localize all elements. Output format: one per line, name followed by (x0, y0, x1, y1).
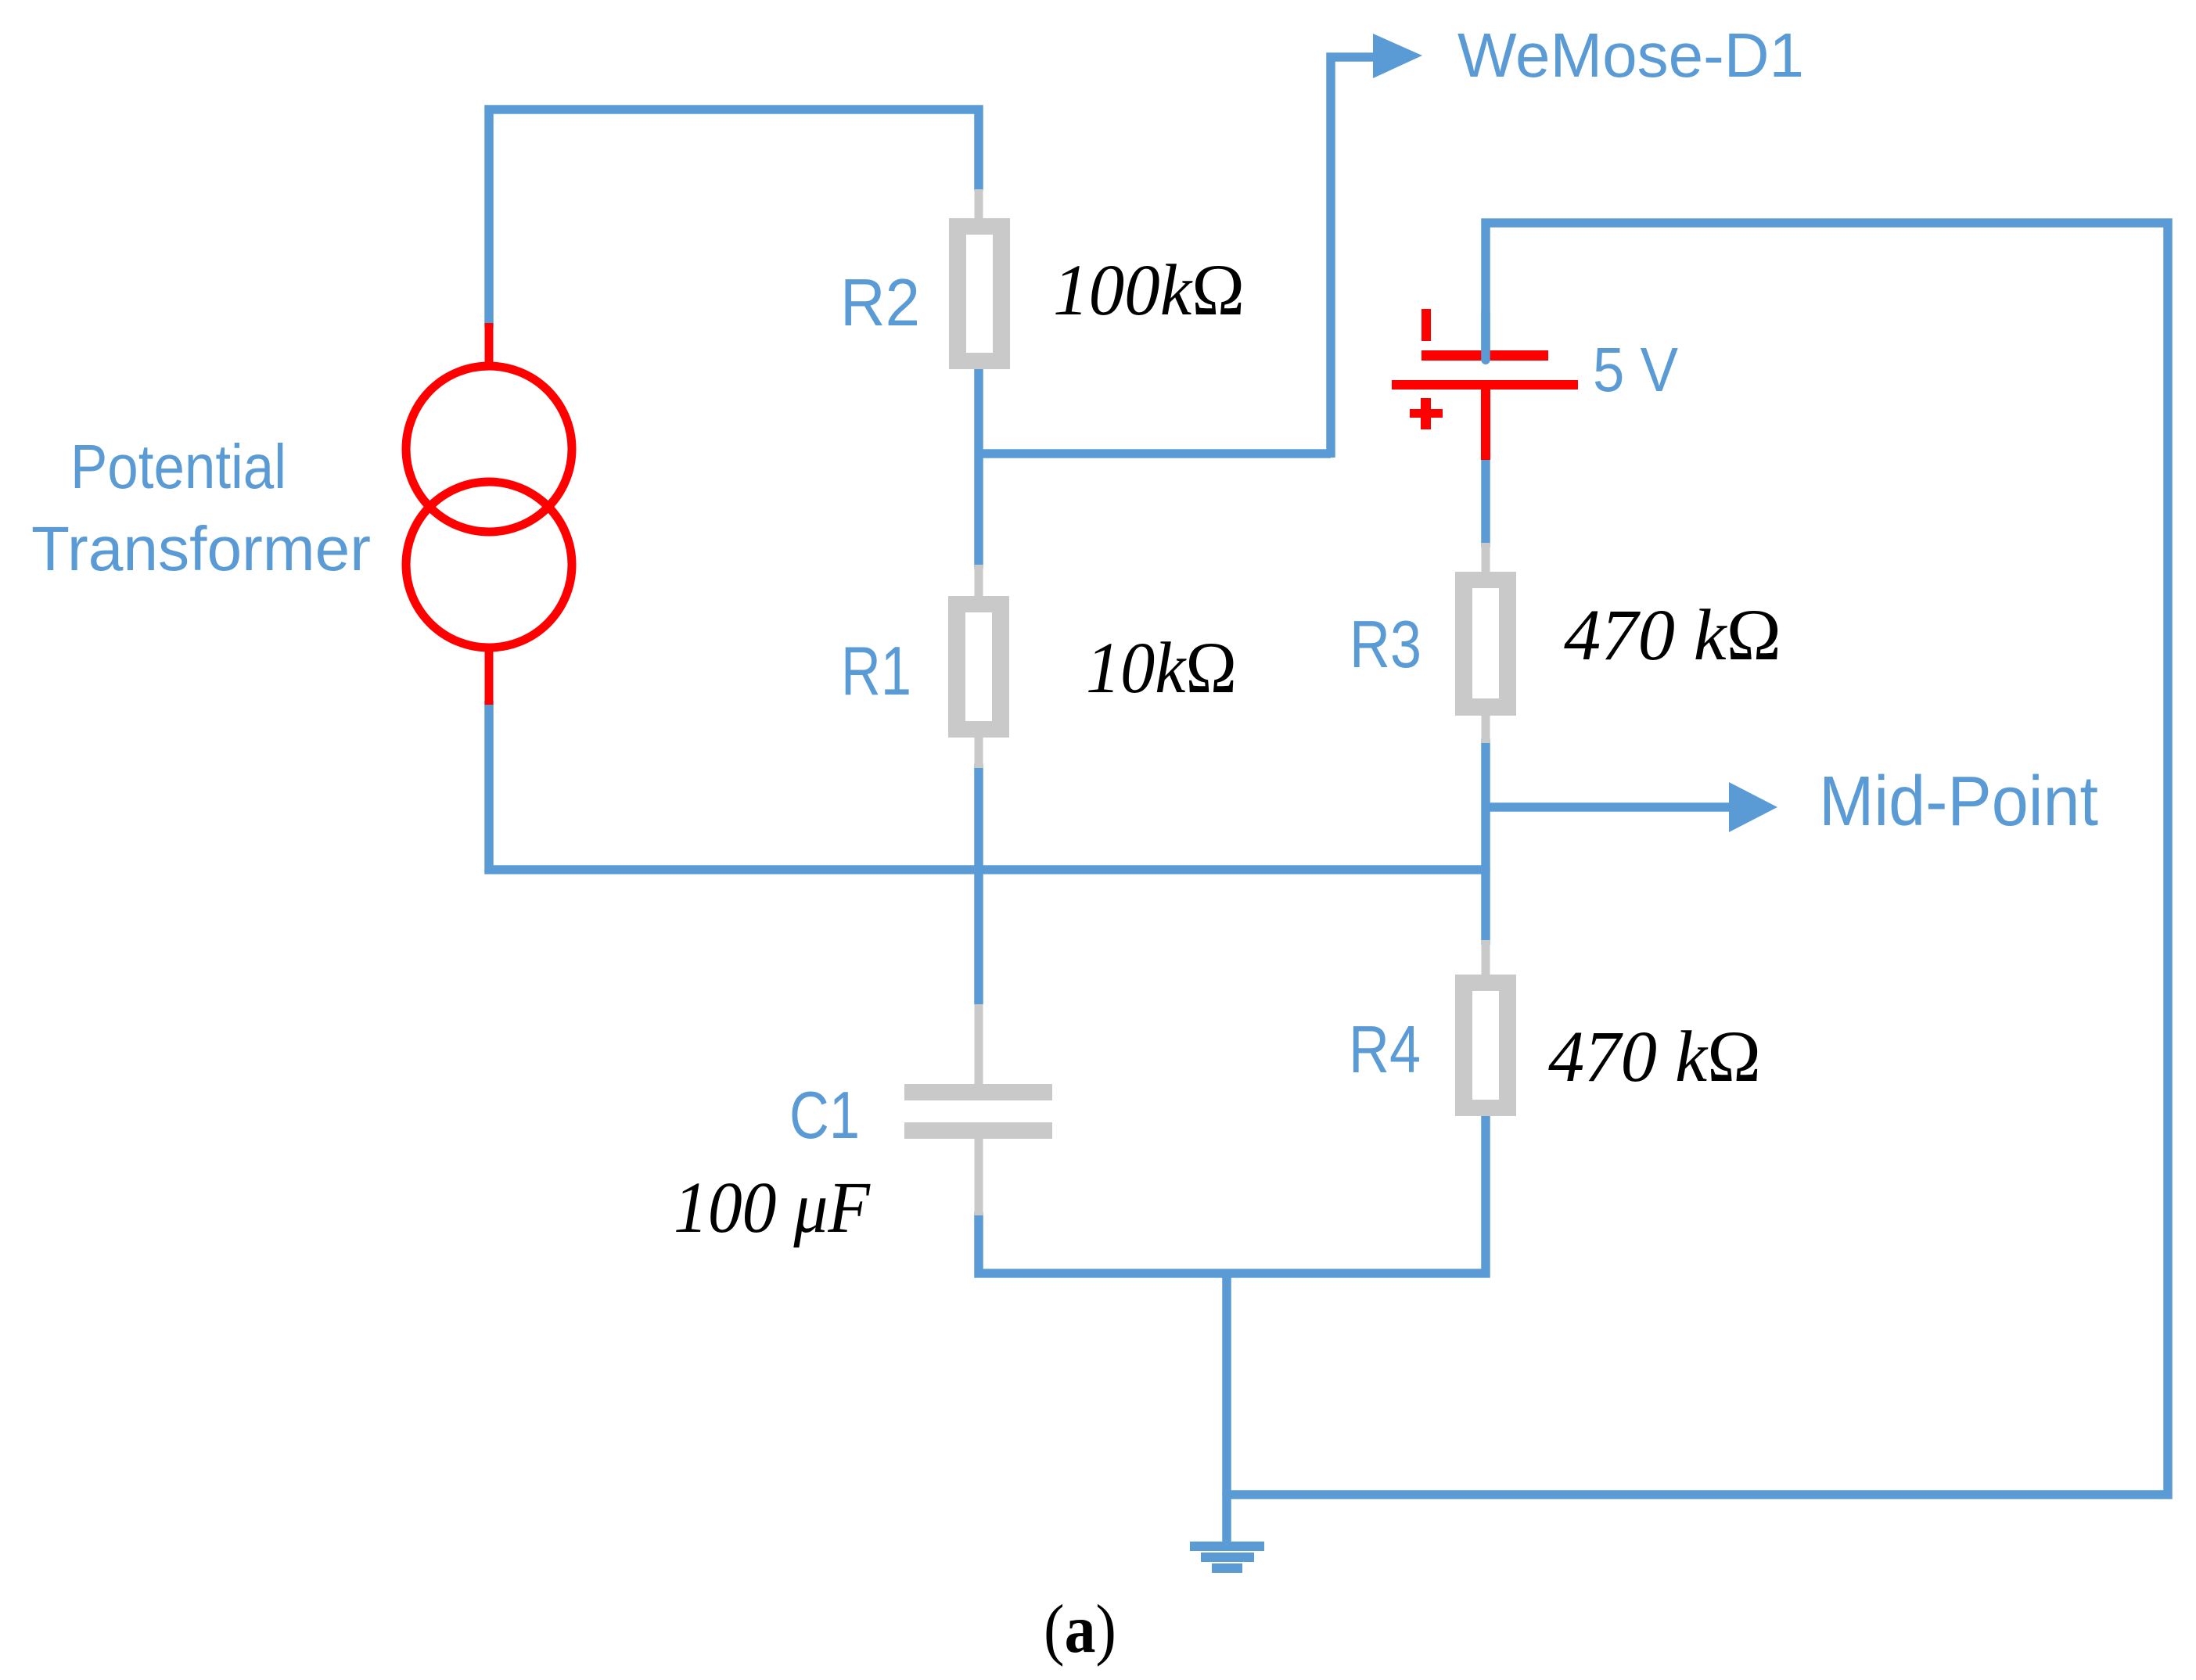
svg-text:WeMose-D1: WeMose-D1 (1457, 20, 1804, 90)
svg-text:5 V: 5 V (1593, 335, 1679, 404)
svg-text:R4: R4 (1349, 1013, 1421, 1087)
svg-text:100kΩ: 100kΩ (1053, 250, 1245, 331)
svg-text:10kΩ: 10kΩ (1086, 628, 1237, 709)
svg-text:100 μF: 100 μF (674, 1168, 871, 1248)
svg-text:Mid-Point: Mid-Point (1819, 763, 2098, 841)
svg-text:Potential: Potential (70, 432, 286, 501)
svg-text:(a): (a) (1044, 1592, 1116, 1667)
svg-text:R1: R1 (841, 632, 911, 709)
svg-text:Transformer: Transformer (31, 514, 371, 583)
svg-text:C1: C1 (789, 1079, 860, 1153)
svg-text:470 kΩ: 470 kΩ (1564, 595, 1781, 676)
svg-text:R2: R2 (840, 266, 920, 340)
svg-text:R3: R3 (1350, 608, 1421, 682)
svg-text:470 kΩ: 470 kΩ (1548, 1017, 1761, 1097)
